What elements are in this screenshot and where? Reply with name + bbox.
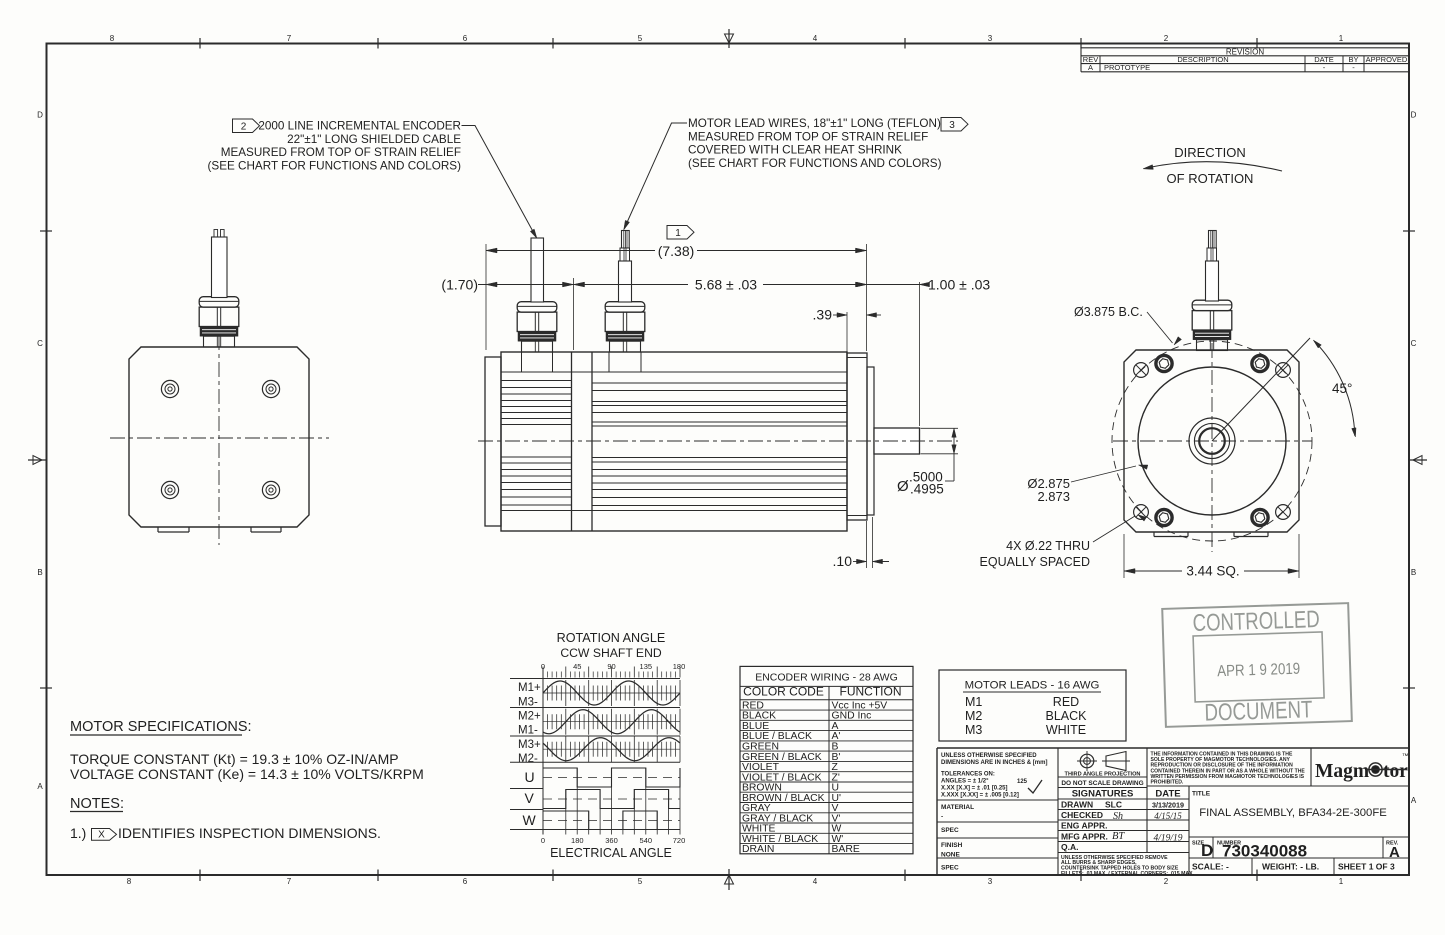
svg-text:BT: BT bbox=[1112, 831, 1125, 842]
side view gland base verticals bbox=[522, 352, 642, 372]
svg-text:6: 6 bbox=[463, 877, 468, 886]
svg-text:.10: .10 bbox=[833, 553, 853, 569]
encoder callout leader bbox=[462, 126, 538, 239]
svg-text:SPEC: SPEC bbox=[941, 865, 959, 872]
motor lead callout text bbox=[688, 117, 942, 170]
svg-text:C: C bbox=[37, 339, 43, 348]
dimension 3.44 SQ bbox=[1124, 534, 1299, 579]
svg-text:1: 1 bbox=[1339, 877, 1344, 886]
encoder wiring table bbox=[740, 666, 913, 855]
svg-text:DOCUMENT: DOCUMENT bbox=[1204, 696, 1313, 726]
svg-text:540: 540 bbox=[640, 836, 653, 845]
svg-text:MOTOR LEADS - 16 AWG: MOTOR LEADS - 16 AWG bbox=[965, 680, 1100, 692]
eng appr row bbox=[1061, 821, 1107, 831]
svg-text:360: 360 bbox=[605, 836, 618, 845]
notes heading bbox=[70, 796, 124, 812]
chart frame lines bbox=[510, 668, 680, 835]
svg-text:ELECTRICAL ANGLE: ELECTRICAL ANGLE bbox=[550, 846, 672, 860]
dimension 7.38 overall bbox=[486, 243, 867, 259]
sheet center marker top bbox=[725, 29, 734, 48]
svg-text:180: 180 bbox=[571, 836, 584, 845]
rear view feet bbox=[158, 527, 281, 532]
front view pilot circle bbox=[1138, 367, 1286, 515]
side view shaft bbox=[874, 428, 920, 454]
svg-text:8: 8 bbox=[127, 877, 132, 886]
controlled document stamp bbox=[1162, 603, 1352, 728]
sine band M1 center line bbox=[543, 692, 680, 694]
sheet center marker bottom bbox=[725, 869, 734, 890]
svg-text:DO NOT SCALE DRAWING: DO NOT SCALE DRAWING bbox=[1061, 780, 1143, 787]
svg-text:TITLE: TITLE bbox=[1192, 791, 1211, 798]
svg-text:4: 4 bbox=[813, 34, 818, 43]
svg-text:(7.38): (7.38) bbox=[658, 243, 695, 259]
svg-text:EQUALLY SPACED: EQUALLY SPACED bbox=[980, 555, 1090, 569]
svg-text:(1.70): (1.70) bbox=[441, 277, 478, 293]
tolerance notes bbox=[941, 753, 1047, 799]
chart top ruler ticks bbox=[543, 667, 680, 678]
svg-text:X.XX [X.X] = ± .01 [0.25]: X.XX [X.X] = ± .01 [0.25] bbox=[941, 786, 1008, 792]
square wave U bbox=[543, 768, 680, 835]
svg-text:2: 2 bbox=[241, 122, 247, 133]
svg-text:ENCODER WIRING - 28 AWG: ENCODER WIRING - 28 AWG bbox=[755, 671, 898, 683]
side view motor lead wire with connector bbox=[619, 231, 632, 303]
svg-text:8: 8 bbox=[110, 34, 115, 43]
material cell bbox=[941, 804, 974, 821]
signatures header bbox=[1072, 789, 1181, 800]
svg-text:B: B bbox=[37, 568, 42, 577]
svg-text:(SEE CHART FOR FUNCTIONS AND C: (SEE CHART FOR FUNCTIONS AND COLORS) bbox=[208, 160, 462, 173]
svg-text:5: 5 bbox=[638, 34, 643, 43]
drawn row bbox=[1061, 800, 1184, 810]
side view mounting ring bbox=[572, 352, 593, 531]
encoder callout flag 2 bbox=[233, 119, 260, 133]
svg-text:45°: 45° bbox=[1332, 381, 1352, 396]
svg-text:125: 125 bbox=[1017, 779, 1028, 785]
svg-text:180: 180 bbox=[673, 662, 686, 671]
svg-text:REVISION: REVISION bbox=[1226, 47, 1264, 56]
dimension shaft diameter .5000/.4995 bbox=[897, 428, 958, 496]
svg-text:FINISH: FINISH bbox=[941, 842, 963, 849]
svg-text:MEASURED FROM TOP OF STRAIN RE: MEASURED FROM TOP OF STRAIN RELIEF bbox=[221, 146, 461, 159]
svg-text:MOTOR SPECIFICATIONS:: MOTOR SPECIFICATIONS: bbox=[70, 719, 252, 735]
label 2.875/2.873 bbox=[1027, 465, 1147, 504]
svg-text:™: ™ bbox=[1402, 753, 1409, 760]
45 degree arc dimension bbox=[1313, 340, 1356, 437]
dimension .10 pilot bbox=[833, 553, 889, 569]
svg-text:3: 3 bbox=[949, 120, 955, 131]
svg-text:X.XXX [X.XX] = ± .005 [0.12]: X.XXX [X.XX] = ± .005 [0.12] bbox=[941, 793, 1019, 799]
side view rear end plate bbox=[485, 357, 501, 526]
svg-text:PROTOTYPE: PROTOTYPE bbox=[1104, 63, 1150, 72]
rear view cable gland bbox=[199, 297, 239, 347]
zone numbers top bbox=[110, 34, 1344, 43]
svg-text:THIRD ANGLE PROJECTION: THIRD ANGLE PROJECTION bbox=[1065, 772, 1141, 778]
motor lead callout flag 3 bbox=[941, 118, 968, 132]
front view 45 degree line bbox=[1212, 338, 1310, 441]
svg-text:NOTES:: NOTES: bbox=[70, 796, 124, 812]
dimension 5.68 bbox=[574, 277, 867, 293]
svg-text:730340088: 730340088 bbox=[1222, 842, 1307, 861]
side view main body fins bbox=[592, 383, 847, 506]
svg-text:MOTOR LEAD WIRES, 18"±1" LONG: MOTOR LEAD WIRES, 18"±1" LONG (TEFLON) bbox=[688, 117, 941, 130]
revision table bbox=[1081, 47, 1409, 72]
chart title bbox=[557, 631, 666, 660]
svg-text:ROTATION ANGLE: ROTATION ANGLE bbox=[557, 631, 666, 645]
svg-text:0: 0 bbox=[541, 836, 545, 845]
direction of rotation text bbox=[1167, 145, 1254, 186]
chart bottom label bbox=[550, 846, 672, 860]
svg-text:7: 7 bbox=[287, 877, 292, 886]
encoder callout text bbox=[208, 120, 462, 173]
surface finish symbol bbox=[1017, 779, 1042, 793]
svg-text:DATE: DATE bbox=[1155, 789, 1180, 800]
mfg appr row bbox=[1061, 831, 1183, 844]
svg-text:DIMENSIONS ARE IN INCHES & [mm: DIMENSIONS ARE IN INCHES & [mm] bbox=[941, 760, 1047, 766]
svg-text:135: 135 bbox=[640, 662, 653, 671]
svg-text:Ø3.875 B.C.: Ø3.875 B.C. bbox=[1074, 305, 1143, 319]
sheet center marker left bbox=[28, 456, 47, 465]
svg-text:M1: M1 bbox=[965, 695, 982, 709]
square wave W bbox=[543, 811, 680, 835]
svg-text:A: A bbox=[1411, 796, 1417, 805]
svg-text:DIRECTION: DIRECTION bbox=[1174, 145, 1246, 160]
svg-text:22"±1" LONG SHIELDED CABLE: 22"±1" LONG SHIELDED CABLE bbox=[287, 133, 461, 146]
chart bottom axis numbers bbox=[541, 836, 685, 845]
front view mounting holes 4X .22 bbox=[1134, 363, 1291, 520]
svg-text:M3: M3 bbox=[965, 723, 982, 737]
svg-text:2: 2 bbox=[1164, 877, 1169, 886]
size cell bbox=[1192, 841, 1213, 861]
svg-text:tor: tor bbox=[1383, 761, 1408, 782]
spec cell 1 bbox=[941, 827, 959, 834]
svg-text:MATERIAL: MATERIAL bbox=[941, 804, 974, 811]
svg-text:Sh: Sh bbox=[1113, 811, 1123, 822]
svg-text:X: X bbox=[98, 829, 105, 840]
sine wave M3 bbox=[543, 738, 680, 761]
svg-text:UNLESS OTHERWISE SPECIFIED: UNLESS OTHERWISE SPECIFIED bbox=[941, 753, 1037, 759]
svg-text:MEASURED FROM TOP OF STRAIN RE: MEASURED FROM TOP OF STRAIN RELIEF bbox=[688, 130, 928, 143]
svg-text:DRAWN: DRAWN bbox=[1061, 800, 1093, 810]
svg-text:Magm: Magm bbox=[1315, 761, 1369, 782]
square wave V bbox=[543, 790, 680, 835]
svg-text:2.873: 2.873 bbox=[1037, 489, 1070, 504]
svg-text:VOLTAGE CONSTANT (Ke) = 14.3 ±: VOLTAGE CONSTANT (Ke) = 14.3 ± 10% VOLTS… bbox=[70, 766, 424, 782]
svg-text:BARE: BARE bbox=[832, 844, 860, 855]
svg-text:45: 45 bbox=[573, 662, 581, 671]
svg-text:TORQUE CONSTANT (Kt) = 19.3 ±: TORQUE CONSTANT (Kt) = 19.3 ± 10% OZ-IN/… bbox=[70, 751, 399, 767]
third angle projection symbol bbox=[1065, 751, 1141, 778]
svg-text:D: D bbox=[37, 111, 43, 120]
svg-text:-: - bbox=[1352, 63, 1355, 72]
title block grid bbox=[937, 748, 1409, 875]
front view centerlines bbox=[1113, 343, 1312, 552]
svg-text:DESCRIPTION: DESCRIPTION bbox=[1177, 55, 1228, 64]
side view front end cap bbox=[847, 353, 867, 520]
side view encoder section fins bbox=[501, 381, 572, 506]
square wave W dashed midline bbox=[543, 820, 680, 822]
motor specifications heading bbox=[70, 719, 252, 735]
svg-text:COLOR CODE: COLOR CODE bbox=[743, 685, 824, 699]
dimension 1.70 bbox=[441, 277, 573, 293]
front view bolt circle dashed bbox=[1112, 341, 1312, 541]
svg-text:V: V bbox=[525, 790, 535, 806]
svg-text:SLC: SLC bbox=[1105, 800, 1122, 810]
svg-text:M3+: M3+ bbox=[518, 739, 541, 751]
chart top axis numbers bbox=[541, 662, 685, 671]
side view pilot boss bbox=[867, 367, 874, 515]
zone numbers bottom bbox=[127, 877, 1344, 886]
svg-text:1.): 1.) bbox=[70, 825, 86, 841]
svg-text:1: 1 bbox=[1339, 34, 1344, 43]
svg-text:M1+: M1+ bbox=[518, 682, 541, 694]
svg-text:U: U bbox=[525, 769, 535, 785]
svg-text:4/19/19: 4/19/19 bbox=[1153, 834, 1182, 844]
direction of rotation arrow bbox=[1143, 162, 1282, 171]
side view motor body outline bbox=[501, 352, 847, 531]
svg-text:Ø: Ø bbox=[897, 478, 909, 495]
front view shaft circles bbox=[1189, 418, 1235, 464]
svg-text:TOLERANCES ON:: TOLERANCES ON: bbox=[941, 772, 995, 778]
proprietary note bbox=[1151, 752, 1306, 786]
svg-text:FINAL ASSEMBLY, BFA34-2E-300FE: FINAL ASSEMBLY, BFA34-2E-300FE bbox=[1199, 807, 1387, 819]
svg-text:A: A bbox=[1088, 63, 1093, 72]
svg-text:MFG APPR.: MFG APPR. bbox=[1061, 832, 1108, 842]
flag 1 above 7.38 bbox=[667, 226, 694, 240]
svg-text:6: 6 bbox=[463, 34, 468, 43]
svg-text:1: 1 bbox=[675, 228, 681, 239]
svg-text:A: A bbox=[1389, 844, 1400, 861]
svg-text:RED: RED bbox=[1053, 695, 1079, 709]
sine wave M2 bbox=[543, 710, 680, 734]
svg-text:BLACK: BLACK bbox=[1046, 709, 1088, 723]
svg-text:SCALE: -: SCALE: - bbox=[1192, 862, 1229, 872]
svg-text:-: - bbox=[1323, 63, 1326, 72]
svg-text:1.00 ± .03: 1.00 ± .03 bbox=[928, 277, 990, 293]
motor leads table bbox=[939, 670, 1126, 741]
svg-text:720: 720 bbox=[673, 836, 686, 845]
rev cell bbox=[1386, 841, 1400, 862]
svg-text:FUNCTION: FUNCTION bbox=[840, 685, 902, 699]
front view lead wire bbox=[1206, 231, 1219, 302]
svg-text:SHEET 1 OF 3: SHEET 1 OF 3 bbox=[1338, 862, 1395, 872]
svg-text:4: 4 bbox=[813, 877, 818, 886]
svg-text:A: A bbox=[37, 782, 43, 791]
svg-text:M2-: M2- bbox=[518, 753, 538, 765]
front view feet bbox=[1154, 532, 1268, 537]
label 4X .22 THRU bbox=[980, 515, 1147, 570]
svg-text:-: - bbox=[941, 814, 943, 821]
square wave V dashed midline bbox=[543, 798, 680, 800]
motor lead callout leader bbox=[624, 123, 687, 230]
title text bbox=[1192, 791, 1387, 820]
svg-text:4/15/15: 4/15/15 bbox=[1154, 811, 1182, 821]
dimension .39 bbox=[813, 307, 881, 323]
rear view screws bbox=[161, 380, 279, 498]
sine band M2 center line bbox=[543, 721, 680, 723]
dimension 1.00 shaft length bbox=[849, 277, 990, 293]
do not scale drawing bbox=[1061, 780, 1143, 787]
svg-text:Q.A.: Q.A. bbox=[1061, 842, 1078, 852]
svg-text:WEIGHT: - LB.: WEIGHT: - LB. bbox=[1262, 862, 1319, 872]
sine band M3 tick comb bbox=[543, 736, 680, 762]
side view centerline bbox=[478, 440, 958, 442]
svg-text:M1-: M1- bbox=[518, 725, 538, 737]
finish cell bbox=[941, 842, 963, 859]
sine wave M1 bbox=[543, 681, 680, 705]
qa row bbox=[1061, 842, 1078, 852]
svg-text:5: 5 bbox=[638, 877, 643, 886]
svg-text:3: 3 bbox=[988, 877, 993, 886]
svg-text:SPEC: SPEC bbox=[941, 827, 959, 834]
side view encoder cable wire bbox=[531, 238, 544, 302]
front view flange plate bbox=[1124, 350, 1299, 532]
svg-text:NONE: NONE bbox=[941, 852, 960, 859]
svg-text:CHECKED: CHECKED bbox=[1061, 810, 1103, 820]
number cell bbox=[1217, 841, 1307, 861]
zone letters right bbox=[1403, 111, 1417, 806]
svg-text:D: D bbox=[1201, 841, 1213, 860]
svg-text:PROHIBITED.: PROHIBITED. bbox=[1151, 780, 1184, 786]
scale weight sheet row bbox=[1192, 862, 1395, 872]
sheet center marker right bbox=[1408, 456, 1427, 465]
rear view flange plate bbox=[129, 347, 309, 527]
svg-text:D: D bbox=[1411, 111, 1417, 120]
sine band M2 tick comb bbox=[543, 709, 680, 735]
rear view centerlines bbox=[110, 335, 329, 545]
note 1 bbox=[70, 825, 381, 841]
svg-text:7: 7 bbox=[287, 34, 292, 43]
square wave U dashed midline bbox=[543, 777, 680, 779]
svg-text:C: C bbox=[1411, 339, 1417, 348]
svg-text:ENG APPR.: ENG APPR. bbox=[1061, 821, 1107, 831]
svg-text:3: 3 bbox=[988, 34, 993, 43]
zone ticks top/bottom bbox=[200, 38, 1257, 881]
svg-text:2000 LINE INCREMENTAL ENCODER: 2000 LINE INCREMENTAL ENCODER bbox=[258, 120, 461, 133]
svg-text:3.44 SQ.: 3.44 SQ. bbox=[1186, 564, 1239, 579]
svg-text:5.68 ± .03: 5.68 ± .03 bbox=[695, 277, 757, 293]
svg-text:IDENTIFIES INSPECTION DIMENSIO: IDENTIFIES INSPECTION DIMENSIONS. bbox=[118, 825, 381, 841]
spec cell 2 bbox=[941, 865, 959, 872]
svg-text:.39: .39 bbox=[813, 307, 833, 323]
svg-text:B: B bbox=[1411, 568, 1416, 577]
svg-text:ANGLES = ± 1/2°: ANGLES = ± 1/2° bbox=[941, 779, 989, 785]
side view encoder gland bbox=[517, 302, 557, 352]
front view hex bolts bbox=[1156, 355, 1268, 525]
svg-text:WHITE: WHITE bbox=[1046, 723, 1086, 737]
side view motor lead gland bbox=[605, 302, 645, 352]
front view gland bbox=[1192, 300, 1232, 350]
svg-text:W: W bbox=[523, 812, 537, 828]
Magmotor logo bbox=[1315, 753, 1409, 782]
svg-text:4X Ø.22 THRU: 4X Ø.22 THRU bbox=[1006, 539, 1090, 553]
svg-text:M3-: M3- bbox=[518, 697, 538, 709]
extension lines side view bbox=[486, 244, 920, 568]
svg-text:.4995: .4995 bbox=[910, 482, 944, 497]
phase labels bbox=[518, 682, 541, 828]
svg-text:COVERED WITH CLEAR HEAT SHRINK: COVERED WITH CLEAR HEAT SHRINK bbox=[688, 144, 902, 157]
torque constant line bbox=[70, 751, 399, 767]
svg-text:SIGNATURES: SIGNATURES bbox=[1072, 789, 1134, 800]
svg-text:OF ROTATION: OF ROTATION bbox=[1167, 171, 1254, 186]
zone letters left bbox=[37, 111, 52, 792]
burrs note bbox=[1061, 855, 1195, 877]
svg-text:CCW SHAFT END: CCW SHAFT END bbox=[560, 646, 662, 660]
svg-text:3/13/2019: 3/13/2019 bbox=[1152, 801, 1184, 810]
svg-text:DRAIN: DRAIN bbox=[742, 844, 774, 855]
svg-text:M2+: M2+ bbox=[518, 711, 541, 723]
svg-text:APPROVED: APPROVED bbox=[1366, 55, 1408, 64]
voltage constant line bbox=[70, 766, 424, 782]
rear view encoder cable bbox=[212, 230, 228, 298]
sine band M1 tick comb bbox=[543, 680, 680, 706]
label 3.875 B.C. bbox=[1074, 305, 1182, 345]
svg-text:(SEE CHART FOR FUNCTIONS AND C: (SEE CHART FOR FUNCTIONS AND COLORS) bbox=[688, 157, 942, 170]
svg-text:FILLETS: .03 MAX. / EXTERNAL C: FILLETS: .03 MAX. / EXTERNAL CORNERS: .0… bbox=[1061, 871, 1195, 877]
checked row bbox=[1061, 810, 1182, 822]
svg-text:APR 1 9 2019: APR 1 9 2019 bbox=[1217, 661, 1301, 681]
sine band M3 center line bbox=[543, 748, 680, 750]
svg-text:2: 2 bbox=[1164, 34, 1169, 43]
svg-text:M2: M2 bbox=[965, 709, 982, 723]
side view fin boundary lines bbox=[501, 372, 847, 511]
